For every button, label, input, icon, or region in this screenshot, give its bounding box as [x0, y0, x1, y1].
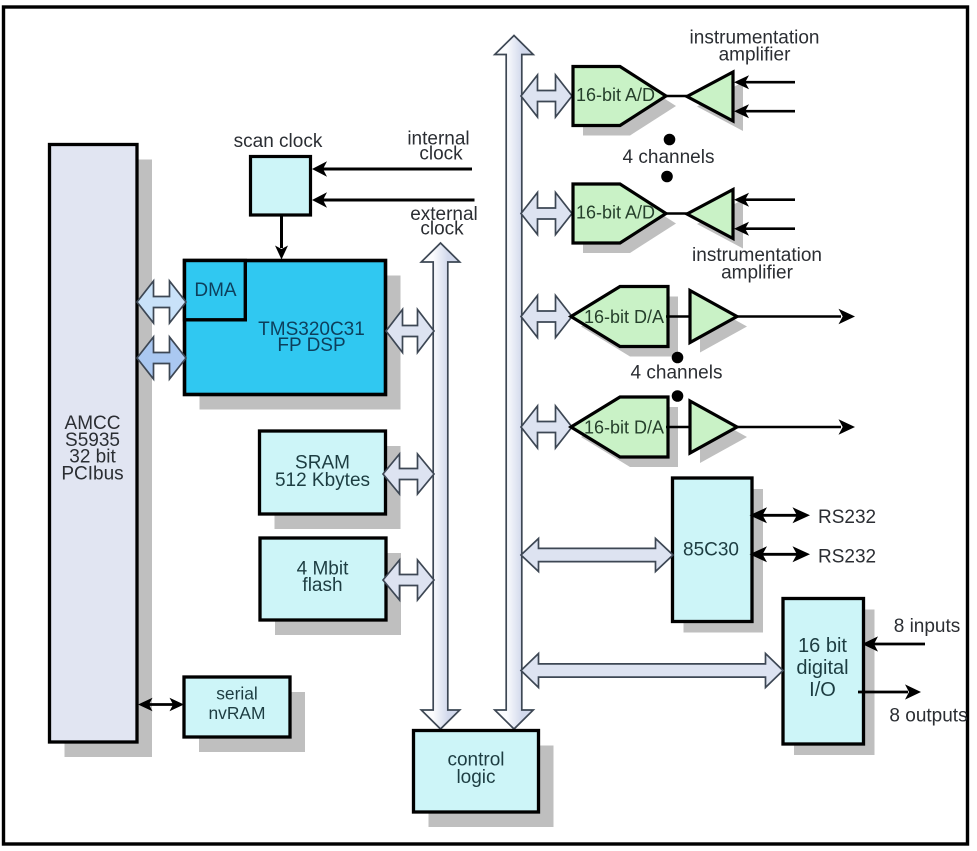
svg-text:RS232: RS232 [818, 546, 876, 567]
svg-text:serialnvRAM: serialnvRAM [208, 683, 265, 722]
double arrow PCI to DMA (upper) [137, 281, 186, 323]
svg-text:AMCCS593532 bitPCIbus: AMCCS593532 bitPCIbus [61, 413, 123, 484]
long double arrow bus to digital I/O [521, 654, 783, 688]
svg-text:85C30: 85C30 [683, 540, 739, 561]
double arrow DSP to clock bus [386, 310, 434, 353]
double arrow bus to A/D 1 [521, 75, 572, 117]
double arrow flash to clock bus [383, 560, 434, 600]
svg-text:8 outputs: 8 outputs [889, 706, 967, 727]
wire A/D 2 to amplifier [664, 212, 689, 214]
wire external clock into scan clock [312, 192, 475, 207]
D/A 2 shadow [581, 407, 747, 467]
A/D 2 shadow [583, 194, 743, 253]
svg-text:DMA: DMA [194, 280, 237, 301]
wire D/A 2 to amplifier [666, 426, 692, 428]
svg-text:4 channels: 4 channels [623, 147, 715, 168]
svg-text:16-bit A/D: 16-bit A/D [576, 85, 655, 105]
ellipsis dot D/A 2 [672, 390, 684, 402]
wire internal clock into scan clock [312, 161, 472, 176]
analog output wire 2 [737, 419, 855, 435]
block DMA [185, 261, 246, 320]
analog input wire 2.2 [734, 222, 795, 236]
analog input wire 1.2 [734, 104, 795, 118]
RS232 wire 1 [750, 507, 811, 523]
output amplifier 1 (triangle) [690, 291, 737, 343]
RS232 wire 2 [750, 546, 811, 562]
analog output wire 1 [737, 309, 855, 325]
svg-text:RS232: RS232 [818, 507, 876, 528]
converter 16-bit A/D 2 [573, 184, 666, 243]
wire A/D 1 to amplifier [664, 95, 689, 97]
wire scan clock to DSP [275, 216, 288, 260]
analog input wire 2.1 [734, 193, 795, 207]
double arrow bus to D/A 2 [521, 406, 572, 448]
double arrow bus to D/A 1 [521, 296, 572, 338]
long double arrow bus to 85C30 [521, 539, 673, 572]
control bus vertical double arrow (main) [495, 36, 534, 730]
svg-text:16-bit D/A: 16-bit D/A [584, 307, 664, 327]
svg-text:16-bit D/A: 16-bit D/A [584, 418, 664, 438]
external clock vertical double arrow [421, 243, 460, 729]
wire D/A 1 to amplifier [666, 315, 692, 317]
block TMS320C31 FP DSP [185, 261, 401, 410]
block 16 bit digital I/O [783, 599, 875, 756]
converter 16-bit D/A 1 [571, 287, 668, 347]
block 4 Mbit flash [260, 538, 401, 635]
converter 16-bit A/D 1 [573, 67, 666, 126]
svg-text:16-bit A/D: 16-bit A/D [576, 203, 655, 223]
ellipsis dot D/A 1 [672, 352, 684, 364]
block 85C30 [673, 478, 764, 633]
ellipsis dot A/D 2 [661, 171, 673, 183]
svg-text:4 Mbitflash: 4 Mbitflash [297, 559, 349, 597]
double arrow SRAM to clock bus [383, 454, 434, 494]
block control logic [414, 731, 554, 828]
svg-text:4 channels: 4 channels [631, 363, 723, 384]
svg-text:8 inputs: 8 inputs [894, 616, 961, 637]
block scan clock [251, 157, 311, 216]
block SRAM 512 Kbytes [260, 431, 401, 529]
converter 16-bit D/A 2 [571, 397, 668, 457]
double arrow bus to A/D 2 [521, 193, 572, 235]
wire 8 inputs into digital I/O [862, 636, 925, 651]
wire PCI to serial nvRAM [138, 698, 184, 712]
svg-text:scan clock: scan clock [234, 131, 323, 152]
double arrow PCI to DSP (lower) [137, 337, 186, 379]
block AMCC S5935 32 bit PCIbus [50, 145, 153, 758]
instrumentation amplifier 2 (triangle) [687, 190, 733, 239]
block serial nvRAM [184, 677, 305, 752]
wire 8 outputs from digital I/O [858, 684, 921, 699]
D/A 1 shadow [581, 297, 747, 357]
analog input wire 1.1 [734, 75, 795, 89]
A/D 1 shadow [583, 77, 743, 136]
output amplifier 2 (triangle) [690, 401, 737, 453]
ellipsis dot A/D 1 [664, 134, 676, 146]
instrumentation amplifier 1 (triangle) [687, 72, 733, 121]
